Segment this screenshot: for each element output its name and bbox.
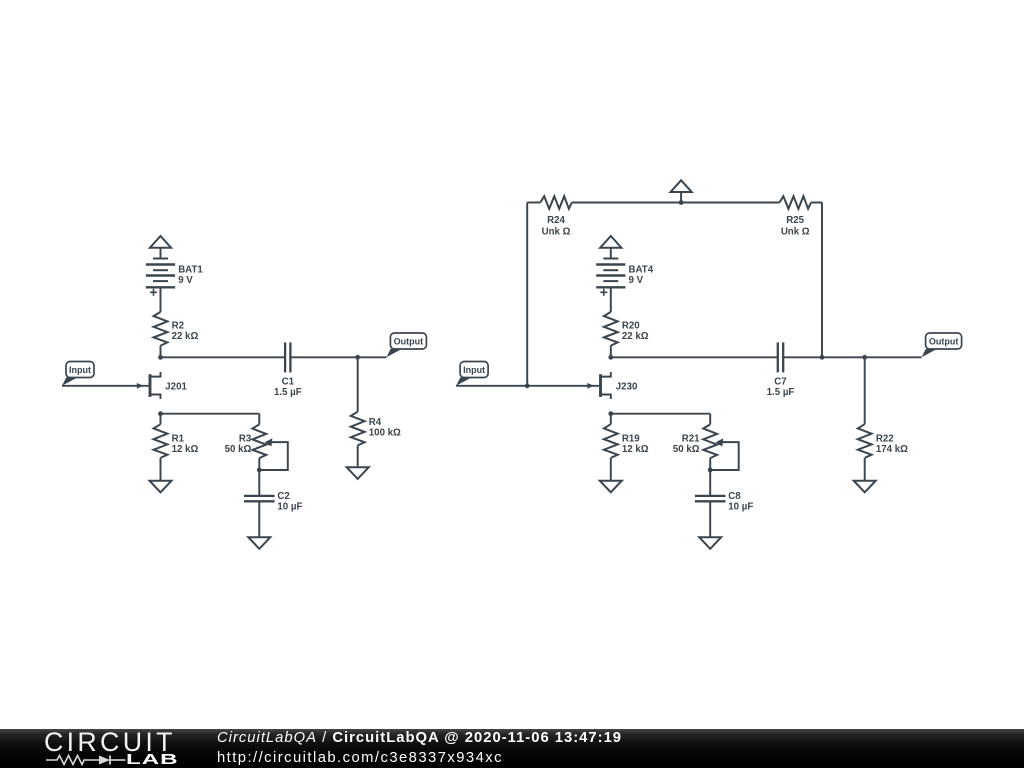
transistor J230 [599,374,602,397]
wire R4 lead [357,357,359,411]
capacitor C1 [284,342,286,372]
ground under R22 [854,481,876,493]
wire R19 lead [610,414,612,425]
svg-text:1.5 µF: 1.5 µF [767,387,795,398]
wire C2 to ground [258,501,260,537]
capacitor C7 [777,342,779,372]
svg-text:Output: Output [929,337,959,347]
transistor J201 [149,374,152,397]
footer url line [217,750,503,766]
svg-text:BAT1: BAT1 [178,265,203,276]
svg-text:Unk Ω: Unk Ω [781,226,810,237]
node wiper junction (left) [257,468,262,473]
svg-text:R4: R4 [369,417,382,428]
svg-text:Input: Input [69,365,91,375]
wire R1 lead [160,414,162,425]
svg-text:C7: C7 [774,376,786,387]
node drain junction (right) [608,355,613,360]
wire gate (left) [62,385,149,387]
node output junction (left) [355,355,360,360]
node output junction (right) [862,355,867,360]
flag Input (left) [62,377,78,385]
wire R3 bottom lead [258,458,260,496]
svg-text:Output: Output [394,337,424,347]
svg-text:50 kΩ: 50 kΩ [225,444,252,455]
battery BAT1 [153,258,168,260]
svg-text:R19: R19 [622,434,640,445]
svg-text:C8: C8 [728,491,741,502]
node top rail junction [679,200,684,205]
flag Output (right) [922,349,938,357]
resistor R24 [540,196,572,209]
ground under R4 [347,467,369,479]
svg-text:J230: J230 [616,381,638,392]
resistor R2 [154,312,168,346]
svg-text:R20: R20 [622,320,640,331]
wire top rail [527,202,540,204]
svg-text:174 kΩ: 174 kΩ [876,444,908,455]
svg-text:9 V: 9 V [629,275,644,286]
node source junction (left) [158,411,163,416]
wire R21 bottom lead [709,458,711,496]
svg-text:22 kΩ: 22 kΩ [622,331,649,342]
potentiometer R3 [252,424,266,458]
svg-text:22 kΩ: 22 kΩ [172,331,199,342]
svg-text:R22: R22 [876,434,894,445]
flag Output (left) [386,349,402,357]
wiper arrow R21 [716,438,724,446]
ground under C2 [248,537,270,549]
wire R22 lead [864,357,866,424]
power flag VCC (left) [150,236,171,248]
wiper arrow R3 [265,438,273,446]
svg-text:R24: R24 [547,215,565,226]
node feedback junction [820,355,825,360]
wire drain row (right) [611,356,778,358]
capacitor C2 [244,495,275,497]
ground under C8 [699,537,721,549]
node gate junction (right) [525,383,530,388]
wire gate (right) [456,385,599,387]
svg-text:R2: R2 [172,320,184,331]
capacitor C8 [695,495,726,497]
svg-text:100 kΩ: 100 kΩ [369,428,401,439]
potentiometer R21 [703,424,717,458]
CircuitLab logo CIRCUIT [44,727,176,758]
power flag VCC (right) [600,236,621,248]
resistor R1 [154,424,168,458]
svg-text:BAT4: BAT4 [629,265,654,276]
resistor R25 [780,196,812,209]
power flag on top rail [671,180,692,192]
svg-text:R21: R21 [682,434,700,445]
wire R25 branch [821,203,823,358]
svg-text:50 kΩ: 50 kΩ [673,444,700,455]
resistor R20 [604,312,618,346]
svg-text:R1: R1 [172,434,185,445]
node drain junction (left) [158,355,163,360]
wire R24 branch [526,203,528,386]
svg-text:12 kΩ: 12 kΩ [172,444,199,455]
flag Input (right) [456,377,472,385]
svg-text:C2: C2 [277,491,289,502]
svg-text:R25: R25 [786,215,804,226]
svg-text:12 kΩ: 12 kΩ [622,444,649,455]
ground under R19 [600,481,622,493]
battery BAT4 [603,258,618,260]
footer title line [217,730,622,746]
svg-text:C1: C1 [282,376,295,387]
node source junction (right) [608,411,613,416]
wire C8 to ground [709,501,711,537]
ground under R1 [150,481,172,493]
resistor R19 [604,424,618,458]
wire source row (left) [161,413,260,415]
svg-text:Unk Ω: Unk Ω [542,226,571,237]
resistor R22 [858,424,872,458]
wire source row (right) [611,413,710,415]
svg-text:10 µF: 10 µF [277,502,302,513]
wire drain row (left) [161,356,286,358]
CircuitLab logo LAB [126,752,178,768]
node wiper junction (right) [708,468,713,473]
logo resistor-diode squiggle [46,754,128,766]
svg-text:1.5 µF: 1.5 µF [274,387,302,398]
resistor R4 [351,412,365,446]
svg-text:J201: J201 [165,381,187,392]
svg-text:10 µF: 10 µF [728,502,753,513]
svg-text:9 V: 9 V [178,275,193,286]
svg-text:Input: Input [463,365,485,375]
svg-text:R3: R3 [239,434,252,445]
